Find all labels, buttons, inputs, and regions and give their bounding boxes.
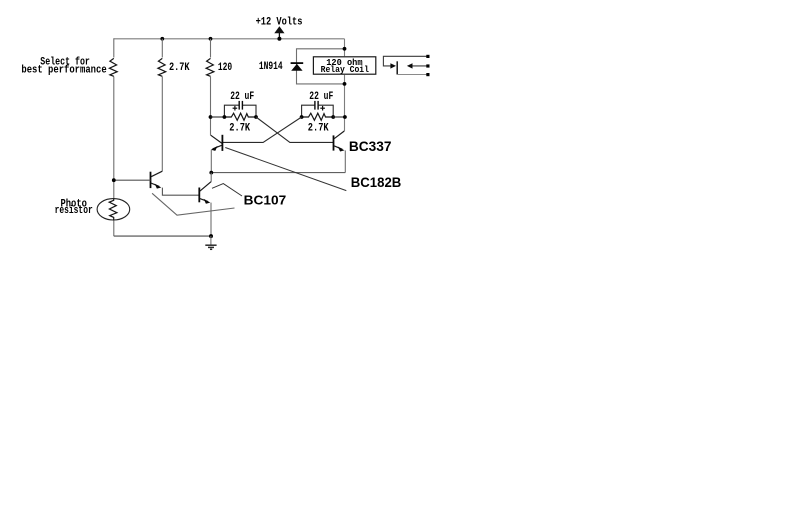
- node junction top rail / 2.7K rail: [160, 37, 164, 41]
- svg-text:120: 120: [218, 61, 232, 73]
- svg-text:22 uF: 22 uF: [230, 90, 254, 102]
- node junction left rail / Q1 base: [112, 178, 116, 182]
- transistor Q3 BC107: [199, 182, 211, 204]
- svg-text:resistor: resistor: [55, 204, 93, 216]
- wire diode bypass bracket: [297, 49, 345, 84]
- label 22 uF right: [309, 90, 333, 102]
- wire bottom return: [114, 235, 211, 237]
- node junction relay rail / right RC: [343, 115, 347, 119]
- callout line gray (Q1 pointer): [152, 193, 234, 215]
- wire left rail middle: [113, 77, 115, 199]
- relay contact NO terminal wire: [397, 74, 428, 76]
- resistor R 2.7K (collector load Q1): [158, 58, 166, 76]
- wire relay rail upper: [344, 39, 346, 56]
- label Photo resistor: [55, 198, 93, 216]
- relay contact moving arrow: [390, 63, 396, 68]
- label 120 ohm Relay Coil: [321, 58, 369, 76]
- svg-text:1N914: 1N914: [259, 60, 283, 72]
- wire left rail bottom: [113, 221, 115, 237]
- node junction emitter bus / BC107 collector: [209, 171, 213, 175]
- node junction ground: [209, 234, 213, 238]
- transistor Q1 (photo amp): [151, 171, 163, 188]
- svg-text:+12 Volts: +12 Volts: [256, 16, 303, 28]
- wire 2.7K rail lower: [161, 77, 163, 172]
- label Select for best performance: [21, 56, 106, 76]
- label 2.7K: [169, 62, 190, 74]
- label 22 uF left: [230, 90, 254, 102]
- svg-text:2.7K: 2.7K: [229, 122, 250, 134]
- label BC337: [349, 138, 392, 154]
- svg-text:best performance: best performance: [21, 64, 106, 76]
- node junction top rail / 120 rail: [209, 37, 213, 41]
- wire BC107 emitter down to ground node: [210, 203, 212, 237]
- node junction right RC right: [331, 115, 335, 119]
- wire 2.7K rail upper: [161, 39, 163, 58]
- svg-text:22 uF: 22 uF: [309, 90, 333, 102]
- node junction left RC right: [254, 115, 258, 119]
- relay contact NC terminal wire with arrow: [407, 63, 428, 68]
- node junction diode bracket top: [343, 47, 347, 51]
- wire emitter bus y172.6: [211, 172, 345, 174]
- svg-text:BC107: BC107: [244, 193, 287, 208]
- svg-text:BC337: BC337: [349, 138, 392, 154]
- label BC182B: [351, 174, 402, 190]
- capacitor C1 22uF bracket: [224, 101, 256, 117]
- wire 120 rail to left RC unit: [211, 116, 225, 118]
- wire 120 rail lower: [210, 77, 212, 136]
- transistor Q BC182B (left flip-flop): [211, 135, 223, 151]
- power +12V arrow symbol: [274, 26, 284, 39]
- transistor Q2 BC337 (right flip-flop): [334, 131, 345, 152]
- wire BC107 collector up to emitter bus: [210, 173, 212, 182]
- wire right RC to relay rail: [333, 116, 345, 118]
- wire Q1 emitter to BC107 base: [162, 188, 199, 196]
- wire left rail upper: [113, 38, 115, 57]
- node junction power arrow on top rail: [277, 37, 281, 41]
- callout line BC107: [212, 184, 242, 196]
- label BC107: [244, 193, 287, 208]
- relay contact bar: [396, 61, 398, 74]
- photoresistor: [97, 199, 130, 220]
- wire cross-coupling right node to BC182B base: [222, 117, 301, 142]
- callout line BC182B: [225, 148, 346, 191]
- wire cross-coupling left node to BC337 base: [256, 117, 333, 142]
- wire Q1 base from photoresistor node: [114, 179, 151, 181]
- svg-text:2.7K: 2.7K: [169, 62, 190, 74]
- relay coil box: [313, 57, 375, 74]
- label 120: [218, 61, 232, 73]
- relay contact terminal dots: [426, 55, 429, 76]
- node junction left RC left: [223, 115, 227, 119]
- svg-text:Relay Coil: Relay Coil: [321, 64, 369, 75]
- label 2.7K left flip-flop: [229, 122, 250, 134]
- resistor R 120: [206, 58, 214, 76]
- node junction right RC left: [300, 115, 304, 119]
- wire BC182B emitter down to common node: [210, 150, 212, 173]
- resistor R 2.7K right flip-flop: [302, 113, 334, 120]
- diode 1N914: [291, 62, 304, 70]
- resistor select-for-best-performance: [109, 58, 117, 76]
- wire 120 rail upper: [210, 39, 212, 58]
- node junction diode bracket bottom: [343, 82, 347, 86]
- label 1N914: [259, 60, 283, 72]
- node junction 120 rail / left RC: [209, 115, 213, 119]
- ground symbol: [205, 236, 216, 249]
- wire relay rail lower: [344, 75, 346, 131]
- svg-text:BC182B: BC182B: [351, 174, 402, 190]
- svg-text:2.7K: 2.7K: [308, 122, 329, 134]
- label 2.7K right flip-flop: [308, 122, 329, 134]
- capacitor C2 22uF bracket: [302, 101, 334, 117]
- label +12 Volts: [256, 16, 303, 28]
- relay contact common terminal wire: [383, 56, 427, 66]
- wire top +12V rail: [114, 38, 345, 40]
- wire BC337 emitter down: [344, 150, 346, 172]
- resistor R 2.7K left flip-flop: [224, 113, 256, 120]
